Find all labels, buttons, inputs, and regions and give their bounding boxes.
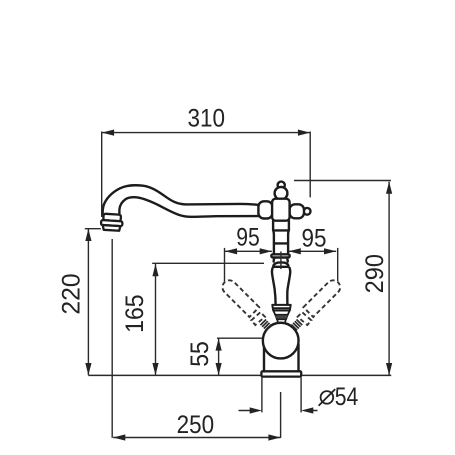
left dashed socket: [251, 312, 265, 325]
290 arrows: [386, 182, 392, 194]
svg-text:55: 55: [186, 341, 214, 367]
310 right extension: [309, 132, 311, 198]
55 top extension: [217, 337, 263, 339]
upper neck concave: [274, 258, 288, 262]
250 dimension line: [113, 437, 281, 439]
socket trapezoid: [273, 311, 289, 315]
socket top: [272, 305, 290, 311]
310 arrows: [102, 130, 114, 136]
right dashed handle capsule: [303, 280, 340, 317]
left collar: [258, 201, 272, 218]
right hatched wedge: [291, 320, 302, 331]
body block: [272, 199, 290, 221]
right stub: [290, 204, 305, 218]
220 dimension line: [87, 229, 89, 375]
socket ribbed band: [275, 315, 287, 319]
aerator outlet: [101, 214, 123, 231]
95 right arrows: [289, 248, 301, 254]
95 right extension: [337, 248, 339, 281]
250 right extension centerline: [280, 392, 282, 438]
neck bands below body: [273, 221, 289, 231]
centerline upper: [280, 251, 282, 269]
220 top extension: [85, 228, 101, 230]
250 arrows: [113, 434, 125, 440]
handle vase left side: [272, 268, 276, 305]
290 top extension: [294, 180, 391, 182]
right ball: [304, 208, 311, 215]
faucet drawing: [101, 182, 311, 372]
310 dimension line: [102, 132, 310, 134]
spout outer top line: [103, 185, 259, 214]
socket small band: [277, 319, 286, 322]
base plane line: [88, 374, 391, 376]
handle dome top: [273, 262, 288, 266]
dashed handle positions: [222, 280, 340, 325]
55 arrows: [216, 338, 222, 350]
flange band: [271, 254, 289, 257]
dia54 arrow tails: [239, 410, 318, 412]
svg-text:310: 310: [188, 104, 226, 132]
250 left extension from outlet: [111, 239, 113, 438]
svg-text:250: 250: [177, 411, 215, 439]
dia54 right extension: [300, 377, 302, 412]
165 dimension line: [155, 264, 157, 375]
arrowheads: [85, 130, 392, 441]
svg-text:54: 54: [335, 383, 359, 411]
svg-text:95: 95: [302, 225, 327, 253]
dia54 arrows: [250, 407, 262, 413]
svg-text:290: 290: [361, 254, 389, 293]
sphere body: [263, 323, 299, 359]
95 left dimension line: [225, 250, 272, 252]
310 left extension: [101, 132, 103, 218]
right dashed socket: [298, 312, 312, 325]
165 top extension: [152, 262, 264, 264]
dia54 left extension: [261, 377, 263, 412]
finial small knob: [278, 182, 285, 189]
95 left extension: [224, 248, 226, 281]
55 dimension line: [218, 338, 220, 375]
95 right dimension line: [289, 250, 337, 252]
spout inner bottom line: [119, 197, 259, 217]
base plate: [261, 371, 301, 376]
diameter symbol: [319, 389, 336, 406]
165 arrows: [152, 264, 158, 276]
svg-text:95: 95: [236, 224, 260, 252]
left dashed handle capsule: [222, 280, 259, 317]
svg-text:220: 220: [58, 273, 86, 314]
dimension texts: [58, 104, 389, 438]
base cylinder sides: [264, 344, 299, 371]
handle vase right side: [287, 268, 290, 305]
290 dimension line: [388, 182, 390, 376]
95 left arrows: [225, 248, 237, 254]
dimension graphics: [85, 132, 391, 438]
svg-text:165: 165: [121, 294, 149, 333]
220 arrows: [85, 229, 91, 241]
left hatched wedge: [260, 320, 271, 331]
finial ball: [275, 187, 288, 200]
